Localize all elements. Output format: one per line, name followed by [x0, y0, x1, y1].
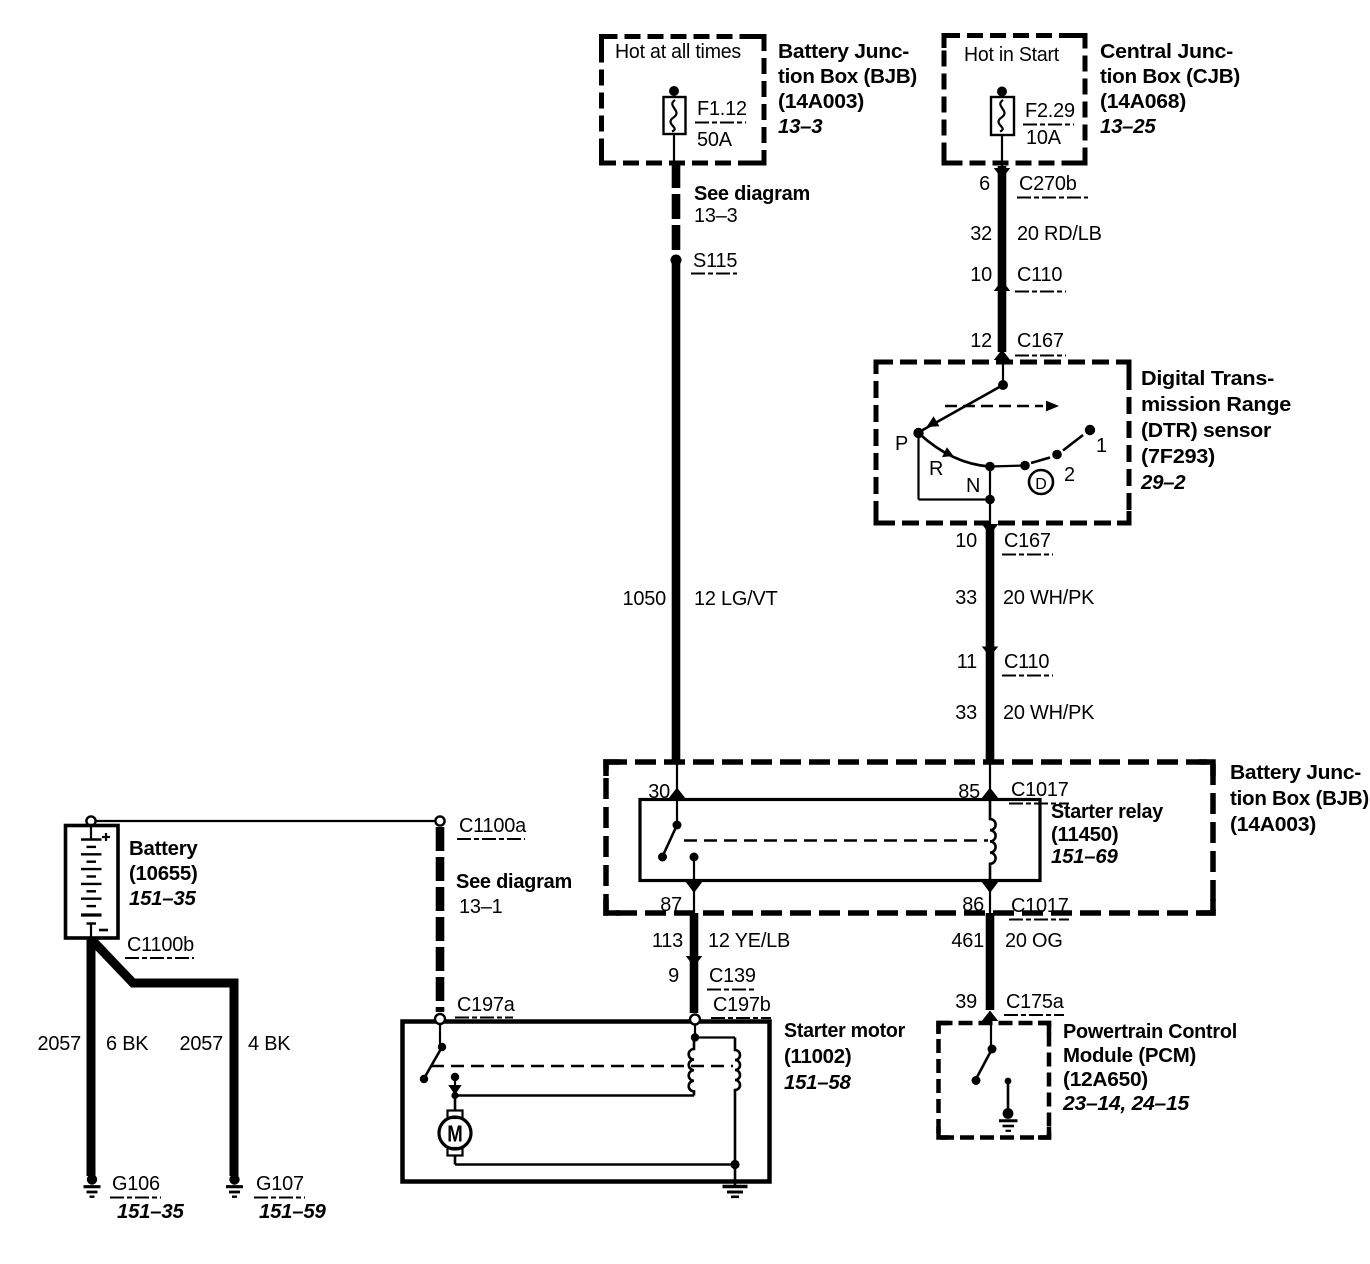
svg-text:P: P	[895, 433, 908, 455]
svg-text:C197b: C197b	[713, 994, 771, 1016]
svg-text:9: 9	[668, 965, 679, 987]
svg-text:F1.12: F1.12	[697, 98, 747, 120]
svg-text:(11002): (11002)	[784, 1046, 851, 1068]
svg-text:(14A003): (14A003)	[1230, 814, 1316, 836]
svg-text:C1100b: C1100b	[127, 934, 194, 956]
svg-text:6 BK: 6 BK	[106, 1033, 149, 1055]
svg-text:Battery: Battery	[129, 838, 198, 860]
svg-text:C1100a: C1100a	[459, 815, 527, 837]
svg-text:1050: 1050	[623, 588, 667, 610]
svg-text:151–69: 151–69	[1051, 846, 1118, 868]
svg-text:Battery Junc-: Battery Junc-	[778, 41, 909, 63]
svg-text:tion Box (CJB): tion Box (CJB)	[1100, 66, 1240, 88]
svg-text:C110: C110	[1004, 651, 1049, 673]
svg-text:tion Box (BJB): tion Box (BJB)	[1230, 788, 1369, 810]
svg-text:C167: C167	[1004, 530, 1051, 552]
svg-text:33: 33	[955, 587, 977, 609]
svg-text:Starter relay: Starter relay	[1051, 801, 1164, 823]
svg-text:Hot at all times: Hot at all times	[615, 41, 741, 63]
svg-text:C1017: C1017	[1011, 895, 1069, 917]
svg-text:10: 10	[955, 530, 977, 552]
svg-text:6: 6	[979, 173, 990, 195]
svg-text:See diagram: See diagram	[456, 871, 572, 893]
svg-text:85: 85	[958, 781, 980, 803]
svg-text:13–1: 13–1	[459, 896, 503, 918]
svg-text:12: 12	[970, 330, 992, 352]
svg-text:G106: G106	[112, 1173, 160, 1195]
svg-text:C270b: C270b	[1019, 173, 1077, 195]
svg-text:151–35: 151–35	[129, 888, 196, 910]
svg-text:G107: G107	[256, 1173, 304, 1195]
svg-text:86: 86	[962, 894, 984, 916]
svg-text:13–3: 13–3	[694, 205, 738, 227]
svg-text:461: 461	[951, 930, 984, 952]
svg-text:R: R	[929, 458, 943, 480]
svg-text:20 WH/PK: 20 WH/PK	[1003, 587, 1095, 609]
svg-text:D: D	[1035, 476, 1047, 493]
svg-text:151–35: 151–35	[117, 1201, 184, 1223]
svg-text:S115: S115	[693, 250, 737, 272]
svg-text:(12A650): (12A650)	[1063, 1069, 1148, 1091]
svg-text:C110: C110	[1017, 264, 1062, 286]
svg-text:C1017: C1017	[1011, 779, 1069, 801]
svg-text:See diagram: See diagram	[694, 183, 810, 205]
svg-text:M: M	[447, 1121, 463, 1147]
svg-text:13–25: 13–25	[1100, 116, 1156, 138]
svg-text:(14A003): (14A003)	[778, 91, 864, 113]
svg-text:151–58: 151–58	[784, 1072, 851, 1094]
svg-text:12 LG/VT: 12 LG/VT	[694, 588, 778, 610]
svg-text:12 YE/LB: 12 YE/LB	[708, 930, 790, 952]
svg-text:2057: 2057	[38, 1033, 82, 1055]
svg-text:20 RD/LB: 20 RD/LB	[1017, 223, 1102, 245]
svg-text:13–3: 13–3	[778, 116, 823, 138]
svg-text:F2.29: F2.29	[1025, 100, 1075, 122]
svg-text:Powertrain Control: Powertrain Control	[1063, 1021, 1237, 1043]
svg-text:Hot in Start: Hot in Start	[964, 44, 1060, 66]
svg-text:151–59: 151–59	[259, 1201, 326, 1223]
svg-text:C167: C167	[1017, 330, 1064, 352]
svg-text:N: N	[966, 475, 980, 497]
svg-text:Module (PCM): Module (PCM)	[1063, 1045, 1196, 1067]
svg-text:Central Junc-: Central Junc-	[1100, 41, 1233, 63]
svg-text:2: 2	[1064, 464, 1075, 486]
svg-text:(11450): (11450)	[1051, 824, 1118, 846]
svg-text:23–14, 24–15: 23–14, 24–15	[1062, 1093, 1190, 1115]
svg-text:39: 39	[955, 991, 977, 1013]
svg-text:(14A068): (14A068)	[1100, 91, 1186, 113]
svg-text:20 WH/PK: 20 WH/PK	[1003, 702, 1095, 724]
svg-text:C197a: C197a	[457, 994, 516, 1016]
svg-text:33: 33	[955, 702, 977, 724]
svg-text:20 OG: 20 OG	[1005, 930, 1063, 952]
svg-text:32: 32	[970, 223, 992, 245]
svg-text:11: 11	[957, 651, 977, 673]
svg-text:Battery Junc-: Battery Junc-	[1230, 762, 1361, 784]
svg-text:87: 87	[660, 894, 682, 916]
svg-text:10: 10	[970, 264, 992, 286]
svg-text:29–2: 29–2	[1140, 472, 1186, 494]
svg-text:Starter motor: Starter motor	[784, 1020, 905, 1042]
svg-text:mission Range: mission Range	[1141, 394, 1291, 416]
svg-text:(7F293): (7F293)	[1141, 446, 1215, 468]
svg-text:C139: C139	[709, 965, 756, 987]
svg-text:50A: 50A	[697, 129, 733, 151]
svg-text:(DTR) sensor: (DTR) sensor	[1141, 420, 1271, 442]
svg-text:30: 30	[648, 781, 670, 803]
svg-text:Digital Trans-: Digital Trans-	[1141, 368, 1274, 390]
svg-text:C175a: C175a	[1006, 991, 1065, 1013]
svg-text:10A: 10A	[1026, 127, 1062, 149]
svg-text:4 BK: 4 BK	[248, 1033, 291, 1055]
svg-text:2057: 2057	[180, 1033, 224, 1055]
svg-text:1: 1	[1096, 435, 1107, 457]
svg-text:113: 113	[652, 930, 683, 952]
svg-text:tion Box (BJB): tion Box (BJB)	[778, 66, 917, 88]
svg-text:(10655): (10655)	[129, 863, 198, 885]
